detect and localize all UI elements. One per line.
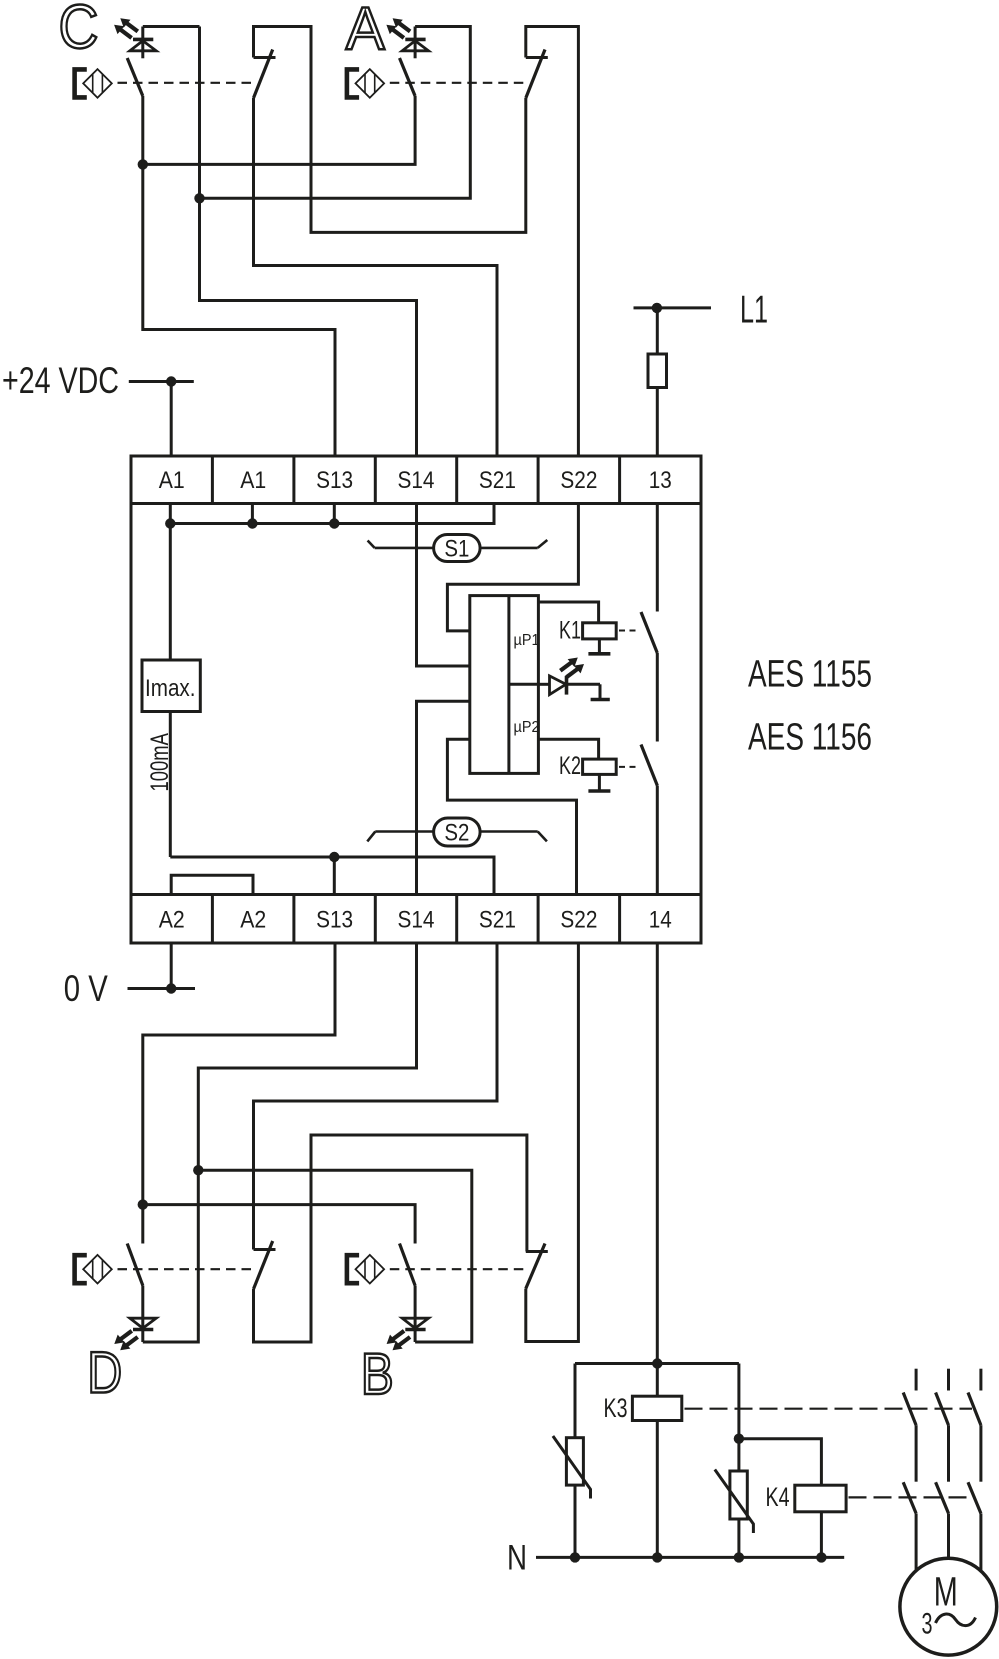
K4 linkage dashed (849, 1496, 973, 1498)
contactor K4 main contact phase 3 (968, 1482, 981, 1571)
wire 0 V to terminal A2 (170, 943, 173, 989)
svg-text:L1: L1 (740, 289, 768, 332)
relay AES terminal row top (131, 456, 701, 504)
wire terminal S14 bottom to D LED (143, 943, 417, 1342)
node L1 junction (652, 303, 662, 313)
wire +24 VDC to terminal A1 (170, 382, 173, 457)
contactor K4 main contact phase 2 (936, 1482, 949, 1558)
relay AES 1155/1156 outline box (131, 504, 701, 895)
relay coil K2 (583, 759, 617, 774)
svg-text:A2: A2 (240, 907, 266, 934)
switch C NC contact (254, 50, 276, 99)
wire 0 V (128, 987, 196, 990)
wire C NO to terminal S13 (143, 96, 335, 456)
svg-text:µP2: µP2 (514, 719, 540, 736)
wire +24 VDC (129, 380, 194, 383)
relay coil K1 (583, 623, 617, 639)
wire A1 drop 1 (169, 504, 172, 524)
svg-text:14: 14 (649, 907, 672, 934)
contactor K3 main contact phase 1 (903, 1369, 916, 1482)
wire A NC top to terminal S22 (526, 27, 579, 457)
wire terminal S21 bottom to D NC (254, 943, 498, 1250)
motor phase tilde (936, 1614, 976, 1626)
K3 linkage dashed (685, 1408, 973, 1410)
svg-text:S22: S22 (560, 907, 597, 934)
node junction D NO (138, 1199, 148, 1209)
internal supply bus A1 (170, 504, 494, 524)
contactor coil K4 (795, 1485, 846, 1512)
svg-text:S14: S14 (398, 907, 435, 934)
switch A NO contact (400, 58, 416, 96)
wire terminal 13 to K1 contact (656, 504, 659, 612)
svg-text:S13: S13 (316, 907, 353, 934)
svg-text:K2: K2 (559, 752, 581, 780)
node bus A1 second (247, 518, 257, 528)
status LED D1 (538, 676, 600, 695)
switch A NC contact (526, 50, 548, 99)
node junction K4 branch (734, 1434, 744, 1444)
current limiter Imax block (142, 660, 200, 712)
wire A1 drop 2 (251, 504, 254, 524)
microprocessor block U1 (470, 596, 539, 774)
svg-text:A2: A2 (159, 907, 185, 934)
sensor D magnet symbol (75, 1255, 112, 1284)
internal link A2-A2 (171, 875, 253, 894)
svg-text:A1: A1 (240, 467, 266, 494)
wire to K4 branch (737, 1364, 740, 1439)
switch D NO contact (127, 1244, 143, 1286)
wire K1 contact to K2 contact (656, 653, 659, 742)
svg-text:0 V: 0 V (64, 968, 108, 1009)
svg-text:A: A (346, 0, 385, 62)
switch D NC contact (254, 1241, 276, 1289)
wire L1 to fuse (656, 308, 659, 354)
svg-text:S13: S13 (316, 467, 353, 494)
svg-text:+24 VDC: +24 VDC (2, 360, 119, 401)
wire uP2 to relay K2 (538, 739, 598, 759)
wire C NO to A NO link (143, 96, 415, 164)
wire fuse to terminal 13 (656, 388, 659, 457)
svg-text:AES 1155: AES 1155 (748, 654, 872, 696)
sensor C magnet symbol (75, 69, 112, 98)
svg-text:µP1: µP1 (514, 632, 540, 649)
svg-text:S21: S21 (479, 467, 516, 494)
svg-text:AES 1156: AES 1156 (748, 717, 872, 759)
wire terminal 14 down (656, 943, 659, 1364)
wire K1 to common (598, 639, 601, 654)
svg-text:D: D (87, 1340, 122, 1405)
K2 linkage dashed (619, 766, 640, 768)
wire branch K3 circuit (575, 1362, 739, 1365)
LED D emission arrows (114, 1331, 137, 1350)
wire uP2 to S22 bottom (447, 739, 576, 894)
wire K4 to N (820, 1512, 823, 1558)
LED C (130, 27, 156, 59)
svg-text:S21: S21 (479, 907, 516, 934)
wire K2 to common (598, 774, 601, 790)
wire Imax to bottom bus (169, 712, 172, 858)
wire to varistor R1 (574, 1364, 577, 1438)
varistor R2 (715, 1470, 754, 1534)
jumper link S1 (368, 540, 548, 548)
K1 linkage dashed (619, 630, 640, 632)
svg-text:Imax.: Imax. (145, 675, 196, 702)
contact K1 blade (641, 612, 657, 653)
wire bottom bus to S13 (333, 857, 336, 895)
wire uP1 to relay K1 (538, 602, 598, 623)
node +24 VDC junction (166, 376, 176, 386)
svg-text:M: M (934, 1569, 958, 1615)
node bus S13 (329, 518, 339, 528)
relay AES terminal row bottom (131, 895, 701, 944)
LED A emission arrows (386, 18, 410, 38)
status LED arrows (560, 658, 584, 678)
wire S14 to uP1 input (417, 504, 470, 667)
LED C emission arrows (114, 18, 138, 38)
common bar LED (591, 698, 610, 702)
node junction C NO (138, 159, 148, 169)
wire branch to A LED (200, 27, 471, 199)
node 0 V junction (166, 983, 176, 993)
svg-text:S1: S1 (444, 536, 469, 563)
node bottom bus S13 (329, 852, 339, 862)
motor M1 three phase (900, 1558, 997, 1655)
node bus A1 (165, 518, 175, 528)
common bar K2 (588, 789, 610, 793)
wire C LED to riser (143, 25, 200, 28)
node junction 14 branch (652, 1358, 662, 1368)
wire D NO to B NO link (143, 1205, 415, 1244)
jumper S1 oval (434, 535, 481, 562)
svg-text:A1: A1 (159, 467, 185, 494)
node N coil K4 (816, 1552, 826, 1562)
svg-text:3: 3 (922, 1607, 933, 1640)
wire status LED to common (599, 684, 602, 698)
svg-text:K4: K4 (766, 1482, 790, 1512)
wire terminal S13 bottom to D NO (143, 943, 335, 1244)
wire riser to terminal S14 (200, 27, 417, 457)
wire to coil K3 (656, 1364, 659, 1397)
contactor K3 main contact phase 3 (968, 1369, 981, 1482)
contactor coil K3 (632, 1396, 681, 1420)
LED D (130, 1286, 156, 1343)
wire N line (536, 1556, 844, 1559)
node junction A-LED branch (194, 193, 204, 203)
wire bus to Imax (169, 524, 172, 661)
sensor B magnet symbol (347, 1255, 384, 1284)
wire branch to B LED (198, 1170, 472, 1342)
wire varistor R1 to N (574, 1485, 577, 1557)
svg-text:S22: S22 (560, 467, 597, 494)
wire L1 (634, 306, 712, 309)
jumper S2 oval (434, 818, 481, 846)
node N coil K3 (652, 1552, 662, 1562)
wire branch to coil K4 (739, 1439, 822, 1486)
sensor A magnet symbol (347, 69, 384, 98)
svg-text:K3: K3 (604, 1393, 628, 1423)
wire S13 drop (333, 504, 336, 524)
fuse F1 (648, 354, 667, 388)
svg-text:C: C (59, 0, 99, 62)
switch B NO contact (400, 1244, 416, 1286)
internal bottom bus A2 (170, 857, 494, 895)
svg-text:N: N (507, 1539, 527, 1578)
svg-text:K1: K1 (559, 617, 581, 645)
switch B NC contact (526, 1244, 548, 1289)
wire C NC to terminal S21 (254, 98, 498, 456)
LED B (402, 1286, 428, 1343)
mechanical link dashed line C (118, 82, 258, 84)
mechanical link dashed line A (390, 82, 530, 84)
svg-text:B: B (361, 1342, 394, 1407)
svg-text:S2: S2 (444, 820, 469, 847)
LED B emission arrows (387, 1331, 410, 1350)
wire K3 to N (656, 1421, 659, 1558)
LED A (402, 27, 428, 59)
contactor K3 main contact phase 2 (936, 1369, 949, 1482)
jumper link S2 (367, 832, 547, 842)
node N varistor R1 (570, 1552, 580, 1562)
contactor K4 main contact phase 1 (903, 1482, 916, 1570)
common bar K1 (588, 652, 610, 656)
wire C NC top to A NC bottom (254, 27, 526, 233)
wire D NC to B NC (254, 1135, 527, 1342)
wire to varistor R2 (737, 1439, 740, 1471)
wire uP2 to S14 bottom (417, 701, 470, 894)
mechanical link dashed line D (118, 1268, 258, 1270)
varistor R1 (553, 1436, 591, 1499)
mechanical link dashed line B (390, 1268, 530, 1270)
contact K2 blade (641, 745, 657, 786)
wire varistor R2 to N (737, 1519, 740, 1557)
wire B NC to terminal S22 bottom (526, 943, 579, 1342)
svg-text:S14: S14 (398, 467, 435, 494)
node N varistor R2 (734, 1552, 744, 1562)
wire K2 contact to terminal 14 (656, 786, 659, 895)
svg-text:13: 13 (649, 467, 672, 494)
switch C NO contact (127, 58, 143, 96)
wire S22 to uP1 input (447, 504, 578, 631)
node junction B LED branch (193, 1165, 203, 1175)
